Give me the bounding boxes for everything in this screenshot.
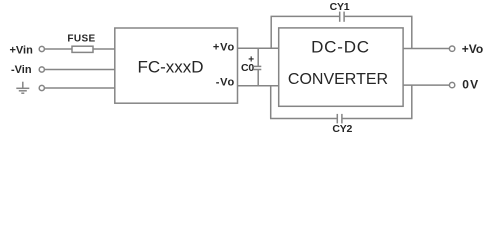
wire EMI loop top (271, 15, 413, 17)
wire EMI loop right upper segment (411, 16, 413, 48)
svg-text:CY2: CY2 (332, 123, 352, 135)
svg-text:-Vin: -Vin (11, 64, 32, 76)
terminal -Vin (39, 67, 44, 72)
ground (16, 82, 29, 94)
svg-text:0V: 0V (462, 77, 479, 91)
module U1 FC-xxxD (115, 28, 238, 103)
wire fuse to U1 (93, 48, 115, 50)
svg-text:+Vin: +Vin (10, 45, 34, 57)
wire U2 to 0V terminal (403, 84, 449, 86)
fuse F1 (72, 46, 93, 52)
wire ground to U1 (44, 87, 114, 89)
terminal +Vin (39, 46, 44, 51)
svg-text:FUSE: FUSE (67, 34, 95, 45)
svg-text:+Vo: +Vo (462, 42, 483, 56)
wire U2 to +Vo terminal (403, 48, 449, 50)
svg-text:CONVERTER: CONVERTER (288, 71, 388, 88)
svg-text:CY1: CY1 (330, 1, 350, 13)
wire -Vin to U1 (44, 69, 114, 71)
wire +Vin to fuse (44, 48, 72, 50)
svg-text:DC-DC: DC-DC (311, 38, 370, 57)
svg-text:FC-xxxD: FC-xxxD (137, 57, 203, 76)
wire EMI loop bottom (270, 118, 413, 120)
wire EMI loop left lower segment (270, 86, 272, 119)
wire EMI loop left upper segment (270, 16, 272, 48)
svg-text:-Vo: -Vo (216, 76, 235, 88)
terminal +Vo output (449, 46, 454, 51)
wire U1 -Vo to U2 (238, 85, 279, 87)
terminal 0V output (449, 82, 454, 87)
terminal ground (39, 85, 44, 90)
svg-text:+Vo: +Vo (213, 42, 235, 54)
wire U1 +Vo to U2 (238, 47, 279, 49)
module U2 DC-DC converter (279, 28, 403, 106)
capacitor C0 (253, 48, 261, 86)
capacitor CY2 (337, 114, 342, 124)
capacitor CY1 (340, 12, 344, 22)
svg-text:+: + (248, 55, 254, 66)
wire EMI loop right lower segment (411, 85, 413, 118)
